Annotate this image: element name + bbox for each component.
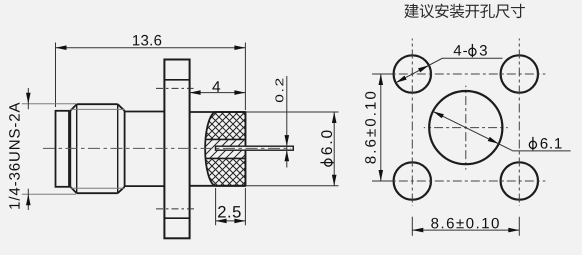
dielectric insulator (cross-hatched) — [0, 60, 416, 250]
dimension 4 (barrel length) — [190, 92, 246, 94]
dimension 2.5 (dielectric depth) — [216, 188, 246, 225]
flange — [164, 60, 189, 239]
center hole 6.1 — [429, 91, 502, 164]
mounting hole top-right — [501, 55, 538, 92]
center pin outline — [216, 146, 294, 150]
mounting hole bottom-left — [394, 162, 431, 199]
mounting hole top-left — [394, 55, 431, 92]
dimension 8.6 +/-0.10 vertical — [372, 74, 394, 181]
flange mounting-hole centerlines (hidden) — [156, 88, 197, 208]
dielectric dividing lines — [205, 139, 246, 158]
rear barrel — [190, 112, 246, 186]
hex chamfer tangent lines — [70, 109, 124, 188]
label diameter 6.1 with leader — [433, 111, 571, 150]
dimension diameter 6.0 — [245, 112, 338, 186]
dimension 8.6 +/-0.10 horizontal — [412, 217, 519, 236]
hole pattern centerlines horizontal — [386, 74, 545, 181]
thread callout 1/4-36UNS-2A — [9, 103, 20, 209]
dimension 13.6 — [56, 43, 246, 111]
center pin — [216, 146, 294, 150]
connector thread cylinder — [56, 111, 70, 187]
body section between hex and flange — [125, 112, 165, 187]
hex nut — [70, 104, 124, 193]
mounting hole bottom-right — [501, 162, 538, 199]
label 4-diameter3 with leader — [396, 58, 503, 82]
title: recommended mounting hole dimensions (CJK) — [404, 4, 525, 18]
centerline — [43, 147, 291, 149]
big hole centerlines — [424, 86, 508, 170]
dimension 0.2 (pin thickness) — [286, 76, 288, 168]
hole pattern centerlines vertical — [412, 39, 519, 207]
